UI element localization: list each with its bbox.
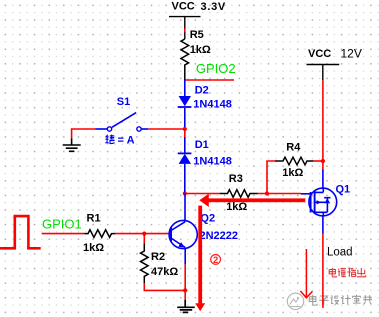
- svg-text:Q1: Q1: [336, 183, 351, 195]
- wire R2 bottom to ground node: [144, 283, 185, 290]
- wire GPIO1 to R1: [42, 233, 85, 235]
- annotation circled 2: [211, 255, 221, 265]
- svg-text:R2: R2: [151, 251, 165, 263]
- wire R4 right lead: [313, 160, 323, 162]
- VCC 12V power symbol: [307, 65, 340, 81]
- resistor R5: [181, 39, 189, 80]
- annotation thin arrow down (output): [300, 249, 312, 298]
- svg-text:1N4148: 1N4148: [193, 98, 232, 110]
- annotation thick arrow left (gate current): [199, 194, 305, 207]
- svg-text:S1: S1: [117, 96, 130, 108]
- diode D2: [178, 80, 192, 127]
- svg-text:VCC: VCC: [308, 48, 331, 60]
- watermark logo: [287, 293, 303, 309]
- wire VCC12 vertical: [322, 80, 324, 169]
- svg-text:1kΩ: 1kΩ: [282, 167, 303, 179]
- wire R4 left drop: [267, 161, 275, 194]
- svg-text:R3: R3: [229, 173, 243, 185]
- svg-text:Q2: Q2: [200, 213, 215, 225]
- svg-text:D1: D1: [195, 139, 209, 151]
- svg-text:12V: 12V: [341, 47, 362, 61]
- resistor R3: [220, 190, 258, 198]
- mosfet Q1: [301, 169, 337, 234]
- wire VCC3.3 to R5 red bit: [184, 29, 186, 34]
- svg-text:1kΩ: 1kΩ: [83, 242, 104, 254]
- wire gate net left: [185, 193, 220, 195]
- switch key label 键 = A: [105, 135, 114, 144]
- wire GPIO2 stub: [184, 79, 234, 81]
- text 电源输出 (red): [329, 268, 366, 277]
- resistor R1: [85, 230, 116, 238]
- svg-text:GPIO2: GPIO2: [196, 61, 236, 76]
- wire Q2 emitter to ground: [184, 264, 186, 300]
- ground (emitter): [177, 300, 195, 313]
- svg-text:2: 2: [213, 255, 218, 266]
- annotation thick arrow down (to ground): [195, 206, 205, 312]
- wire R1 to Q2 base: [115, 233, 169, 235]
- wire gate net right: [258, 193, 301, 195]
- transistor Q2: [169, 194, 197, 265]
- wire switch left to ground corner: [72, 129, 96, 138]
- svg-text:VCC: VCC: [172, 1, 195, 13]
- wire R2 top lead: [143, 234, 145, 244]
- wire switch right to diode node: [148, 129, 185, 137]
- svg-text:1kΩ: 1kΩ: [190, 44, 211, 56]
- resistor R2: [141, 243, 149, 283]
- svg-text:D2: D2: [195, 85, 209, 97]
- svg-text:= A: = A: [118, 134, 135, 146]
- node R3-R4: [265, 191, 269, 195]
- svg-text:1N4148: 1N4148: [193, 156, 232, 168]
- watermark text 电子设计宝典: [309, 295, 372, 305]
- ground (switch): [63, 138, 81, 151]
- svg-text:Load: Load: [327, 247, 353, 259]
- svg-text:R4: R4: [286, 142, 301, 154]
- node D1 anode / R3 / Q2 collector: [183, 191, 187, 195]
- pulse source annotation: [0, 216, 41, 248]
- wire Q1 source to load: [322, 234, 324, 308]
- svg-text:GPIO1: GPIO1: [42, 216, 82, 231]
- node R1/R2/base: [142, 232, 146, 236]
- node switch/diodes: [183, 127, 187, 131]
- svg-text:R5: R5: [190, 29, 204, 41]
- switch S1: [96, 113, 149, 132]
- svg-text:47kΩ: 47kΩ: [151, 266, 178, 278]
- svg-text:3.3V: 3.3V: [201, 1, 226, 13]
- svg-text:2N2222: 2N2222: [200, 230, 239, 242]
- svg-text:1kΩ: 1kΩ: [226, 201, 247, 213]
- diode D1: [178, 137, 192, 192]
- resistor R4: [275, 157, 313, 165]
- node R4/VCC12: [321, 159, 325, 163]
- node emitter/R2/ground: [183, 288, 187, 292]
- svg-text:R1: R1: [87, 212, 101, 224]
